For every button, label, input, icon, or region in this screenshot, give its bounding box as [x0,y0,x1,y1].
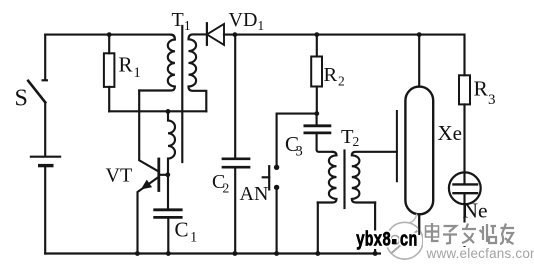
svg-text:3: 3 [488,92,496,108]
transformer T2 secondary winding [352,152,397,203]
watermark halo over bottom rail [381,249,425,259]
watermark chinese char 3 (fa) [462,224,476,244]
node C1 bottom [166,251,171,256]
watermark logo slash lower [392,231,418,254]
svg-text:www.elecfans.com: www.elecfans.com [426,246,534,261]
transistor VT emitter lead [138,177,159,253]
transistor VT base bar [157,159,160,191]
svg-text:1: 1 [184,18,191,33]
node AN bottom [274,251,279,256]
svg-text:S: S [15,86,28,112]
resistor R3 body [459,75,470,104]
wire top-left horizontal from battery branch to T1 primary top [45,34,171,36]
svg-text:2: 2 [353,134,360,149]
node feedback winding top [166,109,171,114]
watermark ybx8.cn mid dot [392,239,397,244]
capacitor C3 bottom plate [305,131,330,134]
wire battery to bottom rail [44,167,46,253]
svg-text:2: 2 [223,180,230,195]
svg-text:Xe: Xe [438,121,463,145]
node AN lower contact [274,185,279,190]
xenon flash tube Xe envelope [405,87,433,215]
node T2 secondary bottom [373,251,378,256]
battery short plate (-) [40,164,52,167]
wire R2 bottom stub [316,87,318,114]
wire AN branch vertical lower [276,188,278,254]
node battery/R1 top [107,32,112,37]
wire T2 primary bottom to bottom rail [317,203,319,254]
capacitor C1 top plate [155,208,182,211]
wire R1 bottom stub [108,87,110,111]
wire R3 to neon lamp [463,104,465,184]
watermark logo tail arc [409,214,417,223]
watermark logo slash upper [385,236,397,247]
pushbutton AN actuator stem [263,176,270,178]
transformer T1 feedback winding [168,111,175,174]
wire R2 top stub [316,35,318,57]
wire R2 node down to C3 [316,114,318,125]
neon lamp Ne lower electrode [454,192,478,194]
wire switch to battery [44,102,46,155]
neon lamp Ne envelope [449,172,481,204]
wire Xe tube bottom stub [418,214,420,253]
svg-text:3: 3 [296,144,303,160]
wire bottom rail [45,252,464,254]
diode VD1 cathode bar [206,23,208,45]
transformer T2 core [343,151,345,209]
node T2 primary bottom [315,251,320,256]
wire Xe tube top stub [418,35,420,87]
xenon tube trigger electrode [396,111,398,181]
pushbutton AN movable bar [268,166,270,189]
wire R1 top stub [108,35,110,54]
svg-text:R: R [119,53,133,77]
svg-text:2: 2 [338,74,345,89]
transistor VT base wire to node [160,174,168,176]
transistor VT collector lead [139,91,158,172]
watermark chinese char 5 (you) [500,224,514,245]
watermark logo small circle [391,236,400,245]
transformer T1 secondary winding [189,34,207,111]
svg-text:R: R [474,77,489,101]
svg-text:1: 1 [134,65,141,81]
svg-text:1: 1 [190,230,197,246]
svg-text:VD: VD [229,9,258,31]
node Xe anode [417,32,422,37]
xenon tube lead visible through logo [418,214,420,235]
resistor R1 body [104,53,115,87]
svg-text:AN: AN [240,183,269,205]
svg-text:1: 1 [258,18,265,33]
node emitter bottom [135,251,140,256]
watermark text ybx8.cn [356,230,417,253]
watermark logo circle [386,222,423,259]
watermark chinese char 2 (zi) [443,226,457,244]
node R2 bottom / C3 / AN [314,111,319,116]
wire C3 bottom to T2 primary top [317,134,333,152]
wire base-bias horizontal R1 to T1 secondary return [109,110,206,112]
transformer T1 core [181,26,183,162]
neon lamp Ne upper electrode [454,183,478,185]
wire C1 to bottom rail [167,219,169,254]
svg-text:ybx8 cn: ybx8 cn [356,230,417,253]
capacitor C3 top plate [305,124,330,127]
svg-text:T: T [172,9,184,31]
watermark chinese char 1 (dian) [426,226,439,237]
wire C2 top stub [234,35,236,158]
transformer T2 primary winding [318,152,337,203]
transformer T1 primary winding [139,35,175,91]
wire Ne to bottom rail [463,193,465,253]
wire top rail diode to right corner and down to R3 [224,35,465,76]
node base / C1 top [165,172,170,177]
watermark chinese char 4 (shao) [480,224,497,243]
resistor R2 body [311,57,322,87]
watermark halo behind www.elecfans.com [425,247,531,259]
wire C2 to bottom rail [234,168,236,253]
node C2 bottom [233,251,238,256]
wire left vertical upper (to switch) [44,35,46,80]
diode VD1 triangle [207,24,224,45]
wire base node down to C1 [167,175,169,209]
svg-text:VT: VT [106,165,133,187]
svg-text:R: R [324,64,338,86]
capacitor C2 top plate [223,157,249,160]
node R2 top [314,32,319,37]
wire AN branch vertical upper and elbow to R2 node [277,114,317,167]
watermark halo behind ybx8.cn [354,231,421,250]
capacitor C2 bottom plate [223,166,249,169]
node AN upper contact [274,165,279,170]
wire T2 secondary bottom to bottom rail [374,203,376,254]
svg-text:C: C [175,218,189,242]
svg-text:Ne: Ne [463,198,488,222]
switch S top contact tick [43,79,47,81]
battery long plate (+) [31,156,60,158]
capacitor C1 bottom plate [155,216,182,219]
node diode output / C2 top [233,32,238,37]
switch S blade [28,81,45,103]
watermark halo behind chinese text [423,223,516,247]
transistor VT emitter arrow [142,181,151,189]
